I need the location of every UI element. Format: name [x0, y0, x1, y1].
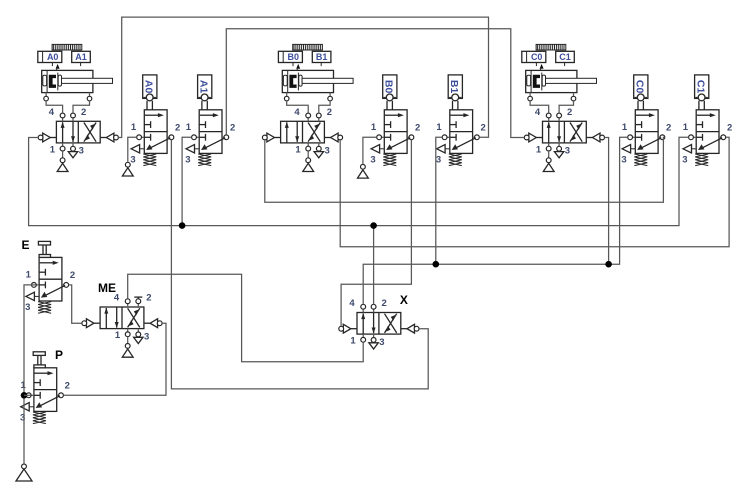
- svg-text:1: 1: [536, 145, 542, 156]
- svg-text:3: 3: [324, 146, 329, 157]
- wire junction to P port 1: [24, 394, 31, 396]
- valve VA 5/2 double-pilot (cylinder A): [38, 107, 118, 172]
- wire A1 port1 drop to bus: [182, 137, 192, 225]
- svg-text:B0: B0: [288, 52, 300, 62]
- air supply under pin 1: [127, 337, 129, 344]
- wire E port2 to ME left pilot: [69, 285, 82, 323]
- wire cylinder C left port to VC port 4: [530, 101, 549, 114]
- position label box A1: [72, 51, 91, 62]
- air supply under pin 1: [62, 151, 64, 158]
- svg-text:4: 4: [294, 107, 300, 118]
- plug on ME port 2: [134, 297, 142, 299]
- valve C0 3/2 roller limit switch: [621, 75, 671, 166]
- svg-text:2: 2: [175, 123, 180, 134]
- wire C0 port2 to VB left pilot: [265, 137, 665, 202]
- pin 1: [381, 136, 384, 138]
- valve ME 5/2 double-pilot: [82, 293, 162, 358]
- cylinder ports: [286, 93, 288, 97]
- svg-text:C1: C1: [694, 80, 706, 94]
- svg-text:2: 2: [81, 107, 86, 118]
- svg-text:1: 1: [436, 122, 442, 133]
- pin 4 at x=62.6: [62, 118, 64, 121]
- return spring: [449, 154, 462, 166]
- roller actuator with label box: [448, 75, 462, 99]
- pin 2: [222, 136, 224, 138]
- pin 2: [167, 136, 169, 138]
- cylinder ports: [45, 93, 47, 97]
- valve A0 3/2 roller limit switch: [130, 75, 180, 166]
- svg-text:3: 3: [79, 146, 84, 157]
- svg-text:X: X: [400, 293, 408, 307]
- wire P port2 to ME right pilot: [63, 323, 166, 395]
- cylinder ports: [529, 93, 531, 97]
- svg-text:4: 4: [535, 107, 541, 118]
- pin 1: [196, 136, 199, 138]
- pin 1: [693, 136, 696, 138]
- svg-text:1: 1: [50, 145, 56, 156]
- svg-text:ME: ME: [98, 281, 116, 295]
- valve E 3/2 pushbutton: [25, 241, 75, 313]
- cylinder C with ruler C0/C1: [522, 44, 597, 100]
- svg-text:B1: B1: [448, 80, 460, 94]
- air supply for valve A0: [122, 162, 133, 176]
- svg-text:2: 2: [382, 298, 387, 309]
- pin 3 exhaust: [692, 148, 697, 150]
- svg-text:2: 2: [146, 293, 151, 304]
- wire C1 port2 to VB right pilot: [340, 137, 729, 247]
- roller actuator with label box: [383, 75, 397, 99]
- junction A1 port1 / bus: [179, 222, 186, 229]
- right pilot port: [144, 322, 158, 324]
- roller actuator with label box: [695, 75, 709, 99]
- wire bus X port4 line to C0 port1: [363, 137, 628, 304]
- svg-text:2: 2: [415, 123, 420, 134]
- wire cylinder A left port to VA port 4: [46, 101, 63, 114]
- distance ruler: [52, 44, 82, 50]
- roller actuator with label box: [634, 75, 648, 99]
- svg-text:3: 3: [436, 155, 441, 166]
- junction X port2 / bus: [370, 222, 377, 229]
- pin 1: [127, 329, 129, 332]
- svg-text:B0: B0: [383, 80, 395, 94]
- left pilot port: [344, 328, 358, 330]
- position label box A0: [38, 51, 62, 62]
- wire cylinder C right port to VC port 2: [559, 101, 573, 114]
- svg-text:B1: B1: [316, 52, 328, 62]
- cylinder barrel, piston and rod: [42, 70, 93, 92]
- left pilot port: [529, 137, 543, 139]
- pin 2: [473, 136, 475, 138]
- return spring: [634, 154, 647, 166]
- wire B1 port1 drop to bus: [436, 137, 442, 264]
- svg-text:3: 3: [565, 146, 570, 157]
- svg-text:3: 3: [621, 155, 626, 166]
- return spring: [33, 412, 46, 424]
- right pilot port: [100, 137, 114, 139]
- svg-text:1: 1: [115, 330, 121, 341]
- svg-text:1: 1: [371, 122, 377, 133]
- pin 3 exhaust: [34, 295, 39, 297]
- pin 2: [62, 284, 64, 286]
- svg-text:2: 2: [567, 107, 572, 118]
- pushbutton actuator: [39, 255, 50, 258]
- svg-text:2: 2: [666, 123, 671, 134]
- wire supply riser to E port 1: [24, 285, 36, 464]
- position label box C0: [522, 51, 546, 62]
- wire A0 port1 to its supply: [128, 137, 137, 162]
- svg-text:3: 3: [144, 331, 149, 342]
- air supply for valve B0: [358, 164, 369, 178]
- cylinder A with ruler A0/A1: [38, 44, 113, 100]
- pin 4 at x=548.7: [548, 118, 550, 121]
- pin 3 exhaust: [631, 148, 636, 150]
- svg-text:2: 2: [70, 270, 75, 281]
- valve A1 3/2 roller limit switch: [185, 75, 235, 166]
- valve P 3/2 pushbutton: [20, 352, 70, 424]
- svg-text:3: 3: [379, 337, 384, 348]
- svg-text:4: 4: [49, 107, 55, 118]
- svg-text:1: 1: [26, 270, 32, 281]
- roller actuator with label box: [143, 75, 157, 99]
- wire B0 port1 to its supply: [363, 137, 377, 164]
- pin 2: [719, 136, 721, 138]
- svg-text:2: 2: [230, 123, 235, 134]
- svg-text:2: 2: [481, 123, 486, 134]
- pin 1: [362, 334, 364, 337]
- svg-text:A0: A0: [143, 80, 155, 94]
- svg-text:C0: C0: [531, 52, 543, 62]
- return spring: [198, 154, 211, 166]
- svg-text:C1: C1: [559, 52, 571, 62]
- cylinder barrel, piston and rod: [526, 70, 577, 92]
- junction supply / P port 1: [21, 392, 28, 399]
- pin 3 exhaust: [140, 148, 145, 150]
- position label box C1: [556, 51, 575, 62]
- junction B1 port1 / bus: [433, 261, 440, 268]
- svg-text:3: 3: [185, 155, 190, 166]
- wire ME port4 to X port1: [128, 274, 364, 362]
- left pilot port: [267, 137, 281, 139]
- pin 2: [658, 136, 660, 138]
- right pilot port: [401, 328, 415, 330]
- pin 1: [36, 284, 39, 286]
- wire A0 port2 to X right pilot: [171, 140, 428, 389]
- wire X port2 riser to bus: [373, 226, 375, 305]
- pin 1: [62, 143, 64, 146]
- wire A1 port2 to VC left pilot (inner top bus): [226, 29, 524, 138]
- pushbutton actuator: [34, 365, 45, 368]
- left pilot port: [87, 322, 101, 324]
- roller actuator with label box: [198, 75, 212, 99]
- svg-text:2: 2: [727, 123, 732, 134]
- distance ruler: [293, 44, 323, 50]
- pin 3 exhaust: [195, 148, 200, 150]
- svg-text:A1: A1: [75, 52, 87, 62]
- svg-text:1: 1: [131, 122, 137, 133]
- valve X 5/2 double-pilot (group selector): [339, 298, 419, 349]
- main air supply (E/P): [16, 464, 32, 481]
- wire B1 port2 to VA right pilot (outer top bus): [118, 17, 488, 137]
- pin 2: [57, 394, 59, 396]
- valve B1 3/2 roller limit switch: [436, 75, 486, 166]
- return spring: [383, 154, 396, 166]
- svg-text:3: 3: [370, 155, 375, 166]
- svg-text:3: 3: [130, 155, 135, 166]
- air supply under pin 1: [548, 151, 550, 158]
- wire bus X output2 line: VA left pilot to C1 port1: [29, 137, 689, 225]
- svg-text:2: 2: [65, 381, 70, 392]
- junction VC right pilot / bus: [605, 261, 612, 268]
- valve C1 3/2 roller limit switch: [682, 75, 732, 166]
- svg-text:2: 2: [327, 107, 332, 118]
- svg-text:1: 1: [683, 122, 689, 133]
- right pilot port: [324, 137, 338, 139]
- pin 4 at x=363.2: [362, 309, 364, 312]
- pin 1: [307, 143, 309, 146]
- svg-text:1: 1: [186, 122, 192, 133]
- air supply under pin 1: [307, 151, 309, 158]
- svg-text:3: 3: [25, 302, 30, 313]
- svg-text:1: 1: [622, 122, 628, 133]
- pin 4 at x=127.7: [127, 304, 129, 307]
- wire B0 port2 to X left pilot: [341, 140, 411, 327]
- position label box B0: [278, 51, 302, 62]
- cylinder B with ruler B0/B1: [278, 44, 353, 100]
- valve VC 5/2 double-pilot (cylinder C): [524, 107, 604, 172]
- return spring: [143, 154, 156, 166]
- cylinder barrel, piston and rod: [282, 70, 333, 92]
- pin 1: [548, 143, 550, 146]
- pin 3 exhaust: [445, 148, 450, 150]
- return spring: [695, 154, 708, 166]
- pin 1: [141, 136, 144, 138]
- distance ruler: [536, 44, 566, 50]
- pin 1: [447, 136, 450, 138]
- pin 1: [632, 136, 635, 138]
- right pilot port: [586, 137, 600, 139]
- svg-text:3: 3: [682, 155, 687, 166]
- pin 2: [407, 136, 409, 138]
- wire cylinder B left port to VB port 4: [287, 101, 309, 114]
- valve VB 5/2 double-pilot (cylinder B): [262, 107, 342, 172]
- svg-text:A1: A1: [197, 80, 209, 94]
- wire VC right pilot drop to bus: [605, 138, 609, 265]
- valve B0 3/2 roller limit switch: [370, 75, 420, 166]
- svg-text:A0: A0: [47, 52, 59, 62]
- wire cylinder A right port to VA port 2: [73, 101, 90, 114]
- pin 3 exhaust: [380, 148, 385, 150]
- position label box B1: [312, 51, 331, 62]
- svg-text:P: P: [55, 348, 63, 362]
- svg-text:4: 4: [349, 298, 355, 309]
- left pilot port: [43, 137, 57, 139]
- svg-text:1: 1: [295, 145, 301, 156]
- wire cylinder B right port to VB port 2: [319, 101, 330, 114]
- return spring: [38, 302, 51, 314]
- svg-text:1: 1: [350, 336, 356, 347]
- svg-text:E: E: [21, 238, 29, 252]
- svg-text:C0: C0: [634, 80, 646, 94]
- pin 1: [31, 394, 34, 396]
- pin 3 exhaust: [29, 406, 34, 408]
- pin 4 at x=308.2: [307, 118, 309, 121]
